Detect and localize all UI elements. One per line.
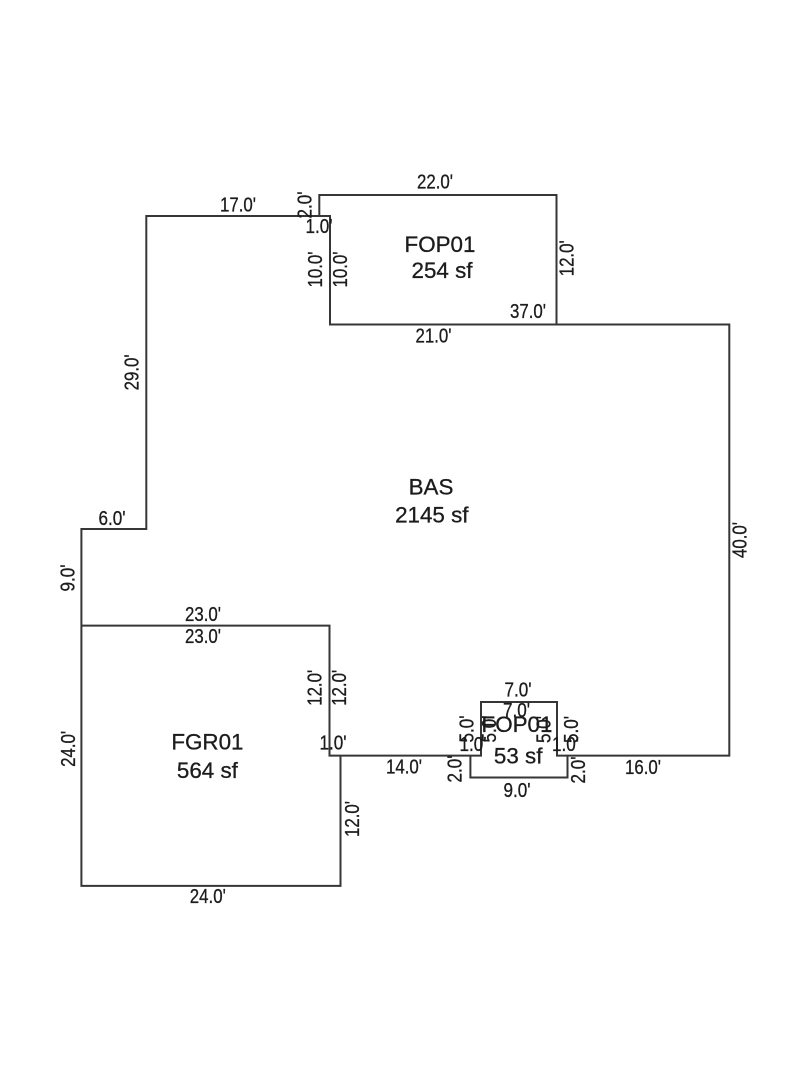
svg-text:24.0': 24.0' — [58, 731, 80, 767]
svg-text:23.0': 23.0' — [185, 626, 221, 648]
svg-text:40.0': 40.0' — [730, 522, 752, 558]
svg-text:254 sf: 254 sf — [412, 258, 474, 283]
svg-text:10.0': 10.0' — [330, 252, 352, 288]
svg-text:1.0': 1.0' — [320, 733, 347, 755]
svg-text:5.0': 5.0' — [457, 716, 479, 743]
svg-text:29.0': 29.0' — [122, 354, 144, 390]
svg-text:22.0': 22.0' — [417, 171, 453, 193]
svg-text:6.0': 6.0' — [99, 508, 126, 530]
svg-text:37.0': 37.0' — [510, 301, 546, 323]
svg-text:7.0': 7.0' — [505, 680, 532, 702]
svg-text:12.0': 12.0' — [305, 670, 327, 706]
svg-text:53 sf: 53 sf — [494, 744, 543, 769]
svg-text:BAS: BAS — [409, 475, 454, 500]
svg-text:2.0': 2.0' — [445, 756, 467, 783]
svg-text:12.0': 12.0' — [329, 670, 351, 706]
svg-text:24.0': 24.0' — [190, 886, 226, 908]
svg-text:FGR01: FGR01 — [171, 730, 243, 755]
svg-text:12.0': 12.0' — [557, 240, 579, 276]
svg-text:21.0': 21.0' — [416, 326, 452, 348]
svg-text:9.0': 9.0' — [504, 780, 531, 802]
svg-text:564 sf: 564 sf — [177, 758, 239, 783]
svg-text:14.0': 14.0' — [386, 757, 422, 779]
svg-text:FOP01: FOP01 — [482, 712, 553, 737]
svg-text:17.0': 17.0' — [220, 195, 256, 217]
svg-text:5.0': 5.0' — [561, 716, 583, 743]
svg-text:2145 sf: 2145 sf — [395, 503, 469, 528]
svg-text:10.0': 10.0' — [305, 252, 327, 288]
svg-text:16.0': 16.0' — [625, 757, 661, 779]
svg-text:9.0': 9.0' — [58, 565, 80, 592]
svg-text:12.0': 12.0' — [342, 801, 364, 837]
svg-text:2.0': 2.0' — [568, 757, 590, 784]
svg-text:2.0': 2.0' — [295, 192, 317, 219]
svg-text:FOP01: FOP01 — [405, 232, 476, 257]
svg-text:23.0': 23.0' — [185, 604, 221, 626]
